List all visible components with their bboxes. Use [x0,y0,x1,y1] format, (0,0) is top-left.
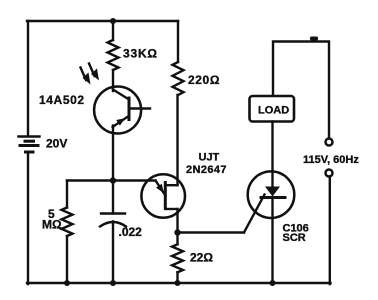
wire from top node down [112,21,114,40]
resistor R3 5M [62,208,73,237]
resistor R4 22 [176,233,178,245]
wire capacitor top lead [112,181,114,214]
wire top horizontal [27,20,178,22]
phototransistor Q1 14A502 [94,87,150,134]
wire gate diagonal [244,195,265,233]
terminal lower AC [326,170,333,177]
wire 5M to bottom [66,236,68,284]
load box [250,96,295,122]
svg-text:20V: 20V [46,137,67,151]
wire phototransistor emitter down [112,126,114,182]
svg-text:.022: .022 [119,225,143,239]
wire 33K to phototransistor collector [112,70,114,91]
wire left vertical lower [27,154,29,285]
wire horizontal to UJT emitter [67,179,156,181]
svg-text:LOAD: LOAD [258,105,289,117]
node dot bottom SCR [270,280,276,286]
wire lower terminal to bottom [329,177,331,285]
wire 5M branch down [66,181,68,208]
svg-text:220Ω: 220Ω [188,73,220,87]
wire SCR cathode down [271,198,273,285]
wire load branch top [273,42,329,139]
node dot bottom 22 [175,280,181,286]
svg-text:22Ω: 22Ω [190,251,213,265]
wire UJT base1 down [176,209,178,233]
svg-text:14A502: 14A502 [39,93,85,107]
wire bottom horizontal [27,282,331,284]
svg-text:SCR: SCR [283,232,306,244]
wire gate horizontal [178,231,245,233]
wire 22 to bottom [176,272,178,284]
wire capacitor bottom lead [112,222,114,285]
resistor R1 33K [108,40,119,70]
svg-text:115V, 60Hz: 115V, 60Hz [303,154,359,166]
node dot bottom 5M [64,280,70,286]
node dot bottom cap [110,280,116,286]
resistor R2 220 branch from top wire [177,21,179,62]
wire 220 to UJT base2 [176,95,178,185]
svg-text:33KΩ: 33KΩ [123,47,158,61]
node junction emitter [110,177,116,183]
SCR Q3 C106 [248,171,295,218]
wire left vertical upper [27,21,29,136]
svg-text:MΩ: MΩ [42,218,62,232]
wire smudge artifact [310,37,318,41]
terminal upper AC [326,139,333,146]
wire load to SCR anode [271,122,273,188]
UJT Q2 2N2647 [141,174,185,218]
svg-text:2N2647: 2N2647 [186,164,227,176]
light arrows [81,64,100,85]
capacitor C1 .022 [100,214,126,227]
node junction gate [174,229,180,235]
node junction top [110,18,116,24]
svg-text:UJT: UJT [199,152,220,164]
battery B1 20V [19,137,40,153]
